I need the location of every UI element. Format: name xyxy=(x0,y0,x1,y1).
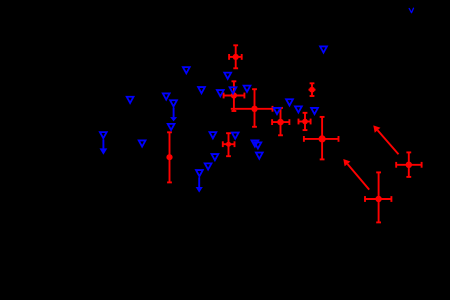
errorbar P6h xyxy=(309,89,316,91)
errorbar P6v xyxy=(310,83,315,96)
errorbar P7 xyxy=(304,117,339,159)
errorbar P2 xyxy=(224,81,245,111)
blue upper-limit triangle T1 xyxy=(127,97,134,103)
blue upper-limit triangle T12 xyxy=(100,132,107,138)
blue upper-limit triangle T25 xyxy=(311,108,318,114)
blue upper-limit triangle T11 xyxy=(320,46,327,52)
red open-circle point O2 xyxy=(376,197,381,202)
red data point P5 xyxy=(302,119,308,125)
blue upper-limit triangle T6 xyxy=(217,90,224,96)
blue upper-limit triangle T9 xyxy=(224,73,231,79)
errorbar O2 xyxy=(365,172,391,222)
blue upper-limit triangle T19 xyxy=(252,140,259,146)
down arrow of T18 xyxy=(196,177,203,192)
blue upper-limit triangle T5 xyxy=(198,87,205,93)
errorbar P5 xyxy=(299,113,311,130)
blue upper-limit triangle T21 xyxy=(256,153,263,159)
errorbar P1 xyxy=(229,45,242,68)
down arrow of T3 xyxy=(170,108,177,122)
blue upper-limit triangle T23 xyxy=(286,99,293,105)
blue upper-limit triangle T8 xyxy=(244,86,251,92)
blue upper-limit triangle T16 xyxy=(212,154,219,160)
blue upper-limit triangle T15 xyxy=(232,133,239,139)
errorbar P3 xyxy=(231,89,273,127)
red data point P8 xyxy=(166,154,172,160)
blue upper-limit triangle T4 xyxy=(168,124,175,130)
blue upper-limit triangle T13 xyxy=(139,140,146,146)
red data point P3 xyxy=(251,106,257,112)
blue upper-limit triangle T14 xyxy=(210,132,217,138)
blue legend glyph v xyxy=(409,8,413,13)
blue upper-limit triangle T18 xyxy=(196,170,203,176)
errorbar O1 xyxy=(396,152,421,177)
blue upper-limit triangle T22 xyxy=(274,108,281,114)
blue upper-limit triangle T2 xyxy=(163,93,170,99)
red data point P4 xyxy=(277,119,284,126)
red data point P2 xyxy=(231,92,237,98)
blue upper-limit triangle T17 xyxy=(205,163,212,169)
blue upper-limit triangle T20 xyxy=(255,142,262,148)
red arrow A1 xyxy=(373,125,398,154)
blue upper-limit triangle T7 xyxy=(230,87,237,93)
errorbar P4 xyxy=(272,108,289,135)
errorbar P9 xyxy=(223,133,235,156)
red data point P1 xyxy=(233,54,239,60)
red data point P6 xyxy=(309,87,315,93)
blue upper-limit triangle T24 xyxy=(295,106,302,112)
red arrow A2 xyxy=(343,159,369,190)
blue upper-limit triangle T10 xyxy=(183,67,190,73)
blue upper-limit triangle T3 xyxy=(170,100,177,106)
red data point P7 xyxy=(319,135,326,142)
red data point P9 xyxy=(226,142,231,147)
red open-circle point O1 xyxy=(407,163,412,168)
down arrow of T12 xyxy=(100,140,108,155)
errorbar P8 xyxy=(167,132,172,182)
